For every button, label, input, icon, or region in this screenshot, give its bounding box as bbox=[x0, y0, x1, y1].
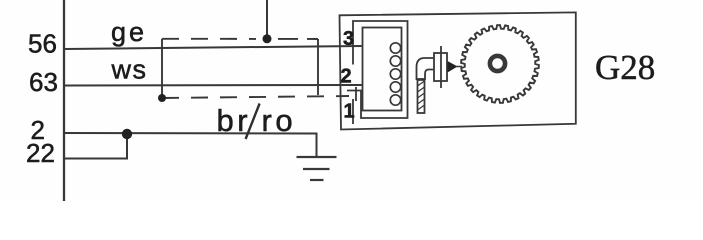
connector female contacts bbox=[390, 43, 400, 105]
wire: terminal 63 to pin 2, ws bbox=[64, 84, 362, 87]
svg-text:22: 22 bbox=[26, 138, 55, 168]
wire: terminal 22 bbox=[64, 135, 127, 159]
svg-text:1: 1 bbox=[344, 101, 355, 123]
shield: dashed screen around ge/ws wires bbox=[162, 39, 349, 98]
gear hub donut bbox=[490, 56, 505, 71]
wire: drop from top edge to shield bbox=[266, 0, 268, 39]
svg-text:3: 3 bbox=[343, 28, 354, 50]
sensor arrow toward gear bbox=[448, 61, 458, 73]
node: junction of wire 2 and wire 22 bbox=[122, 129, 132, 139]
connector pin 1 terminal bbox=[352, 99, 354, 124]
node: shield lower-left junction bbox=[158, 94, 166, 102]
sensor plug elbow bbox=[417, 58, 434, 113]
sensor pole piece line bbox=[440, 46, 442, 88]
svg-text:ws: ws bbox=[111, 55, 148, 85]
ground symbol bbox=[297, 157, 337, 180]
wire: terminal 56 to pin 3, ge bbox=[64, 46, 362, 49]
connector plug body bbox=[363, 28, 402, 111]
gear: toothed rotor wheel bbox=[461, 25, 539, 103]
svg-text:ge: ge bbox=[111, 17, 147, 47]
svg-text:ro: ro bbox=[262, 103, 297, 138]
node: junction on shield top bbox=[263, 34, 272, 43]
sensor body bbox=[434, 46, 462, 88]
svg-text:63: 63 bbox=[29, 67, 58, 97]
wire: left bus vertical bbox=[63, 0, 65, 201]
svg-text:br: br bbox=[217, 103, 252, 138]
sensor plug stem (hatched) bbox=[418, 79, 425, 113]
wire colour br/ro bbox=[246, 104, 260, 140]
svg-text:2: 2 bbox=[341, 66, 352, 88]
svg-text:56: 56 bbox=[28, 29, 57, 59]
svg-text:G28: G28 bbox=[595, 48, 655, 87]
connector pin 2 terminal bbox=[355, 87, 357, 101]
component box G28 bbox=[340, 12, 576, 129]
connector housing T3 outline bbox=[347, 21, 408, 124]
wire: terminal 2, br/ro bbox=[64, 133, 317, 157]
